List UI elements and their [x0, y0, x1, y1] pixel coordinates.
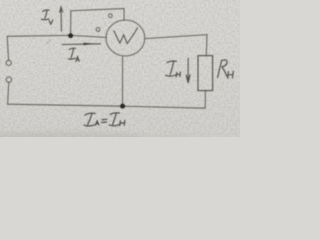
wire resistor bottom to bottom wire — [204, 91, 206, 109]
paper background — [0, 0, 240, 137]
label R_H — [218, 60, 234, 78]
terminal upper — [6, 60, 11, 65]
stray pencil mark — [46, 40, 51, 45]
wire voltage branch (junction up and over to wattmeter top) — [71, 9, 124, 36]
wire bottom horizontal — [8, 104, 206, 108]
junction dot B (bottom wire) — [120, 104, 125, 109]
wire left vertical upper — [7, 36, 8, 60]
wattmeter W (circle) — [106, 20, 145, 56]
label I_A — [68, 48, 79, 61]
wire voltage-coil return (wattmeter bottom to bottom junction) — [122, 56, 124, 106]
wattmeter W glyph — [114, 28, 138, 44]
arrow I_A (right) — [62, 43, 101, 46]
wire down to resistor top — [205, 35, 208, 56]
label equation I_A = I_H — [84, 113, 125, 126]
wire wattmeter right to corner — [145, 35, 207, 39]
bottom-edge scan shading — [0, 132, 210, 143]
polarity mark o (left of wattmeter, on current path) — [96, 27, 100, 32]
wire top horizontal (left corner to wattmeter) — [7, 35, 106, 37]
junction dot A (top, main wire) — [68, 33, 73, 38]
terminal lower — [6, 77, 11, 82]
resistor R_H (rectangle) — [198, 56, 213, 91]
label I_V — [41, 10, 53, 24]
label I_H — [166, 61, 181, 77]
arrow I_H (down) — [186, 58, 190, 82]
arrow I_V (up) — [60, 7, 63, 31]
polarity mark o (top of wattmeter, voltage path) — [108, 13, 112, 18]
wire lower terminal to bottom corner — [8, 82, 9, 104]
